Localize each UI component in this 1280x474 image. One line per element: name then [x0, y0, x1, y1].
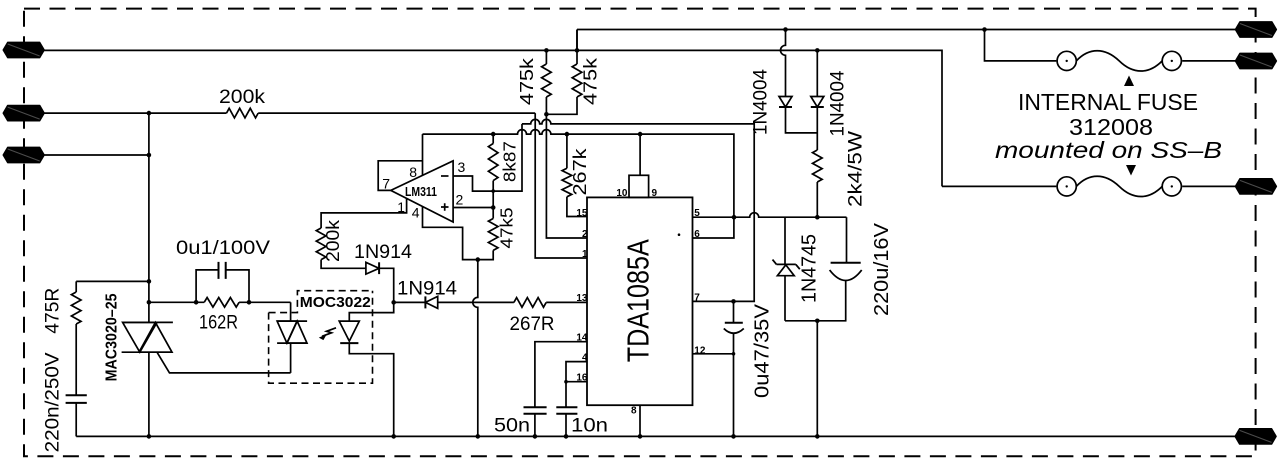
svg-text:475R: 475R	[43, 288, 64, 334]
wire fuse row2 right segment	[1182, 185, 1240, 187]
op-amp LM311 triangle	[391, 161, 453, 222]
resistor 200k horizontal	[227, 108, 259, 118]
svg-text:1N914: 1N914	[397, 279, 457, 300]
zener 1N4745	[773, 217, 800, 321]
resistor 475k left	[542, 50, 552, 97]
junction 1N4004-1 top	[783, 27, 788, 32]
svg-text:200k: 200k	[219, 87, 266, 108]
svg-text:0u1/100V: 0u1/100V	[176, 238, 270, 259]
junction 162R tap	[147, 300, 152, 305]
resistor 2k4/5W	[813, 150, 823, 182]
svg-text:8: 8	[631, 406, 637, 417]
wire box bottom to rail	[816, 321, 818, 437]
capacitor 10n plates	[556, 407, 577, 414]
wire diode1 to junction	[379, 268, 394, 302]
svg-text:1: 1	[582, 249, 588, 260]
svg-text:15: 15	[576, 208, 588, 219]
terminal left L2	[3, 105, 44, 120]
svg-text:0u47/35V: 0u47/35V	[751, 303, 773, 398]
LM311 pin 2 lead	[453, 207, 493, 209]
svg-text:2: 2	[582, 229, 588, 240]
svg-text:1N4004: 1N4004	[751, 69, 772, 135]
capacitor 0u47 top plate	[725, 322, 743, 324]
svg-text:1N914: 1N914	[354, 242, 412, 263]
opto LED symbol	[339, 321, 359, 343]
junction L3/triac column	[147, 153, 152, 158]
junction 162R left	[194, 300, 199, 305]
wire 475k right jog	[546, 97, 577, 114]
junction snubber tap	[147, 279, 152, 284]
wire fuse row1 drop	[985, 30, 1057, 61]
svg-text:INTERNAL FUSE: INTERNAL FUSE	[1018, 89, 1198, 115]
wire 162R row	[149, 301, 291, 303]
junction pin7 / 0u47 tap	[731, 299, 736, 304]
LM311 pin 1 lead	[321, 198, 407, 228]
svg-text:50n: 50n	[494, 416, 530, 437]
junction 1N4004-2 top	[815, 48, 820, 53]
wire pin16 stub	[566, 381, 587, 383]
junction supply cross pin5	[732, 215, 737, 220]
svg-text:12: 12	[694, 346, 706, 357]
junction pin8 rail	[638, 434, 643, 439]
wire 0u47 to rail	[733, 334, 735, 437]
wire pin4 to 10n	[566, 362, 587, 408]
wire triac column lower to rail	[148, 352, 150, 436]
junction pin16 join	[564, 380, 568, 384]
wire 220n to rail	[75, 403, 77, 437]
opto LED cathode lead	[349, 343, 393, 436]
opto LED anode lead	[349, 302, 393, 321]
wire pin5 row with hop	[693, 213, 786, 218]
svg-text:200k: 200k	[323, 219, 343, 262]
svg-text:10: 10	[616, 188, 628, 199]
junction Y2/fuse1	[982, 27, 987, 32]
svg-text:475k: 475k	[580, 57, 600, 105]
LM311 plus sign	[441, 203, 449, 211]
light arrow	[319, 328, 336, 340]
IC TDA1085A box	[587, 197, 693, 405]
svg-text:47k5: 47k5	[497, 208, 517, 249]
diode 1N914 first	[366, 262, 379, 274]
terminal left L3	[3, 147, 44, 162]
dot inside TDA	[678, 233, 681, 236]
arrow down to fuse F2	[1126, 165, 1136, 176]
wire pin13 row with 267R	[438, 301, 587, 303]
wire divider ground drop with hop	[473, 260, 478, 437]
svg-text:162R: 162R	[199, 313, 238, 334]
junction pin9 feed	[638, 132, 643, 137]
capacitor 220u/16V	[830, 217, 862, 321]
diode 1N4004 first	[779, 30, 817, 133]
junction L2/triac column	[147, 111, 152, 116]
svg-text:1N4004: 1N4004	[828, 70, 849, 136]
wire 475R to cap	[75, 324, 77, 395]
resistor 267k	[562, 134, 572, 197]
wire 47k5 bottom	[478, 250, 493, 259]
svg-text:2k4/5W: 2k4/5W	[846, 131, 867, 207]
LM311 pin 8 lead	[422, 134, 424, 175]
svg-text:13: 13	[576, 293, 588, 304]
wire L2 row with resistor 200k	[40, 112, 535, 114]
junction box rail	[815, 434, 820, 439]
wire Y2 top branch	[577, 30, 1240, 51]
capacitor 0u1/100V plates	[219, 262, 226, 279]
svg-text:9: 9	[652, 188, 658, 199]
svg-text:267k: 267k	[570, 147, 590, 195]
svg-text:7: 7	[382, 176, 390, 192]
arrow up to fuse F1	[1124, 76, 1134, 87]
wire 200k to diode	[321, 260, 366, 269]
terminal right R1	[1235, 22, 1276, 37]
resistor 475R vertical	[71, 281, 81, 324]
wire pin13 row left	[394, 301, 426, 303]
wire Y1 mains from L1 to fuse2 drop	[40, 50, 942, 186]
wire 10n to rail	[565, 414, 567, 437]
wire C supply bus with hops	[423, 130, 734, 238]
opto-triac symbol	[277, 321, 307, 343]
supply box outline	[785, 217, 847, 321]
junction ground drop / rail	[476, 434, 481, 439]
capacitor 0u47 curved plate	[724, 329, 744, 334]
wire 8k87 bottom	[492, 181, 494, 219]
resistor 267R	[514, 298, 546, 308]
resistor 8k87	[492, 134, 494, 143]
svg-text:1: 1	[397, 199, 405, 215]
terminal left L1 (mains)	[3, 42, 44, 57]
wire pin9 feed	[639, 134, 641, 175]
junction 475k left top	[544, 48, 549, 53]
resistor 8k87 zigzag	[488, 144, 498, 181]
svg-text:LM311: LM311	[405, 185, 437, 199]
wire bottom rail	[76, 435, 1240, 437]
wire B divider-mid bus with hops	[522, 119, 754, 301]
capacitor 220n/250V plates	[66, 395, 87, 403]
wire pin14 to 50n	[535, 342, 587, 408]
junction 50n rail	[533, 434, 538, 439]
svg-text:6: 6	[694, 229, 700, 240]
resistor 47k5 zigzag	[488, 219, 498, 251]
resistor 162R	[204, 298, 239, 308]
svg-text:10n: 10n	[571, 416, 608, 437]
terminal right R3	[1235, 179, 1276, 194]
junction pin12 join	[732, 352, 736, 356]
svg-text:220u/16V: 220u/16V	[871, 222, 893, 316]
LM311 pin 3 lead	[453, 176, 493, 191]
svg-text:2: 2	[456, 192, 464, 208]
opto-triac bottom lead	[290, 343, 292, 373]
wire 2k4 to box	[816, 182, 818, 217]
wire snubber top	[76, 280, 149, 282]
fuse F2 bottom	[1057, 176, 1181, 196]
wire L3 row	[40, 154, 149, 156]
svg-text:MAC3020–25: MAC3020–25	[103, 293, 120, 381]
wire 267k to pin15	[567, 197, 587, 217]
diode 1N914 second	[425, 296, 437, 308]
junction divider mid	[491, 189, 495, 193]
svg-text:4: 4	[412, 205, 420, 221]
wire pin12 stub	[693, 353, 734, 355]
optocoupler MOC3022 dashed box	[269, 291, 373, 384]
triac MAC3020-25 symbol	[122, 322, 173, 352]
junction triac column / bottom rail	[147, 434, 152, 439]
TDA top pins box	[629, 175, 649, 197]
junction LED cathode / rail	[391, 434, 396, 439]
svg-text:TDA1085A: TDA1085A	[621, 239, 656, 362]
wire 50n to rail	[534, 414, 536, 437]
junction 475k right top	[575, 48, 580, 53]
svg-text:MOC3022: MOC3022	[300, 294, 371, 311]
junction 0u47 rail	[731, 434, 736, 439]
wire pin7 0u47 drop	[733, 301, 735, 322]
resistor 200k vertical	[316, 228, 326, 260]
junction 47k5/pin4/ground	[476, 257, 481, 262]
resistor 475k right	[572, 30, 582, 98]
diode 1N4004 second	[811, 50, 824, 150]
capacitor 0u1/100V loop	[196, 270, 249, 302]
terminal right R4 (neutral)	[1235, 429, 1276, 444]
junction box bottom	[815, 319, 820, 324]
svg-text:mounted on SS–B: mounted on SS–B	[995, 137, 1222, 163]
junction 267k top	[565, 132, 570, 137]
junction 8k87 top	[491, 132, 496, 137]
svg-text:3: 3	[458, 159, 466, 175]
junction diode node	[391, 300, 396, 305]
capacitor 50n plates	[524, 407, 547, 414]
opto-triac top lead	[290, 302, 292, 321]
wire fuse row2 left segment	[942, 185, 1056, 187]
svg-text:1N4745: 1N4745	[798, 234, 820, 303]
wire 475k left lower	[546, 97, 587, 238]
fuse F1 top	[1057, 51, 1181, 71]
wire pin8 to rail	[639, 405, 641, 436]
triac gate wire	[157, 352, 291, 373]
LM311 pin 4 lead	[423, 207, 478, 260]
junction pin2 tap	[491, 205, 496, 210]
svg-text:267R: 267R	[510, 314, 555, 335]
wire A pin1 drop	[535, 113, 587, 258]
svg-text:475k: 475k	[517, 57, 537, 105]
wire fuse row1 right segment	[1182, 60, 1240, 62]
junction 475k join	[544, 112, 549, 117]
LM311 pin7-pin8 tie	[378, 161, 422, 191]
junction 10n rail	[564, 434, 569, 439]
svg-text:8k87: 8k87	[500, 141, 520, 182]
wire divider mid to wireB	[493, 124, 522, 191]
junction 162R right	[247, 300, 252, 305]
svg-text:8: 8	[409, 164, 417, 180]
junction 2k4 top	[815, 215, 820, 220]
svg-text:7: 7	[694, 292, 700, 303]
wire triac column upper	[148, 113, 150, 322]
svg-text:220n/250V: 220n/250V	[43, 352, 64, 452]
LM311 minus sign	[441, 175, 449, 177]
terminal right R2	[1235, 53, 1276, 68]
